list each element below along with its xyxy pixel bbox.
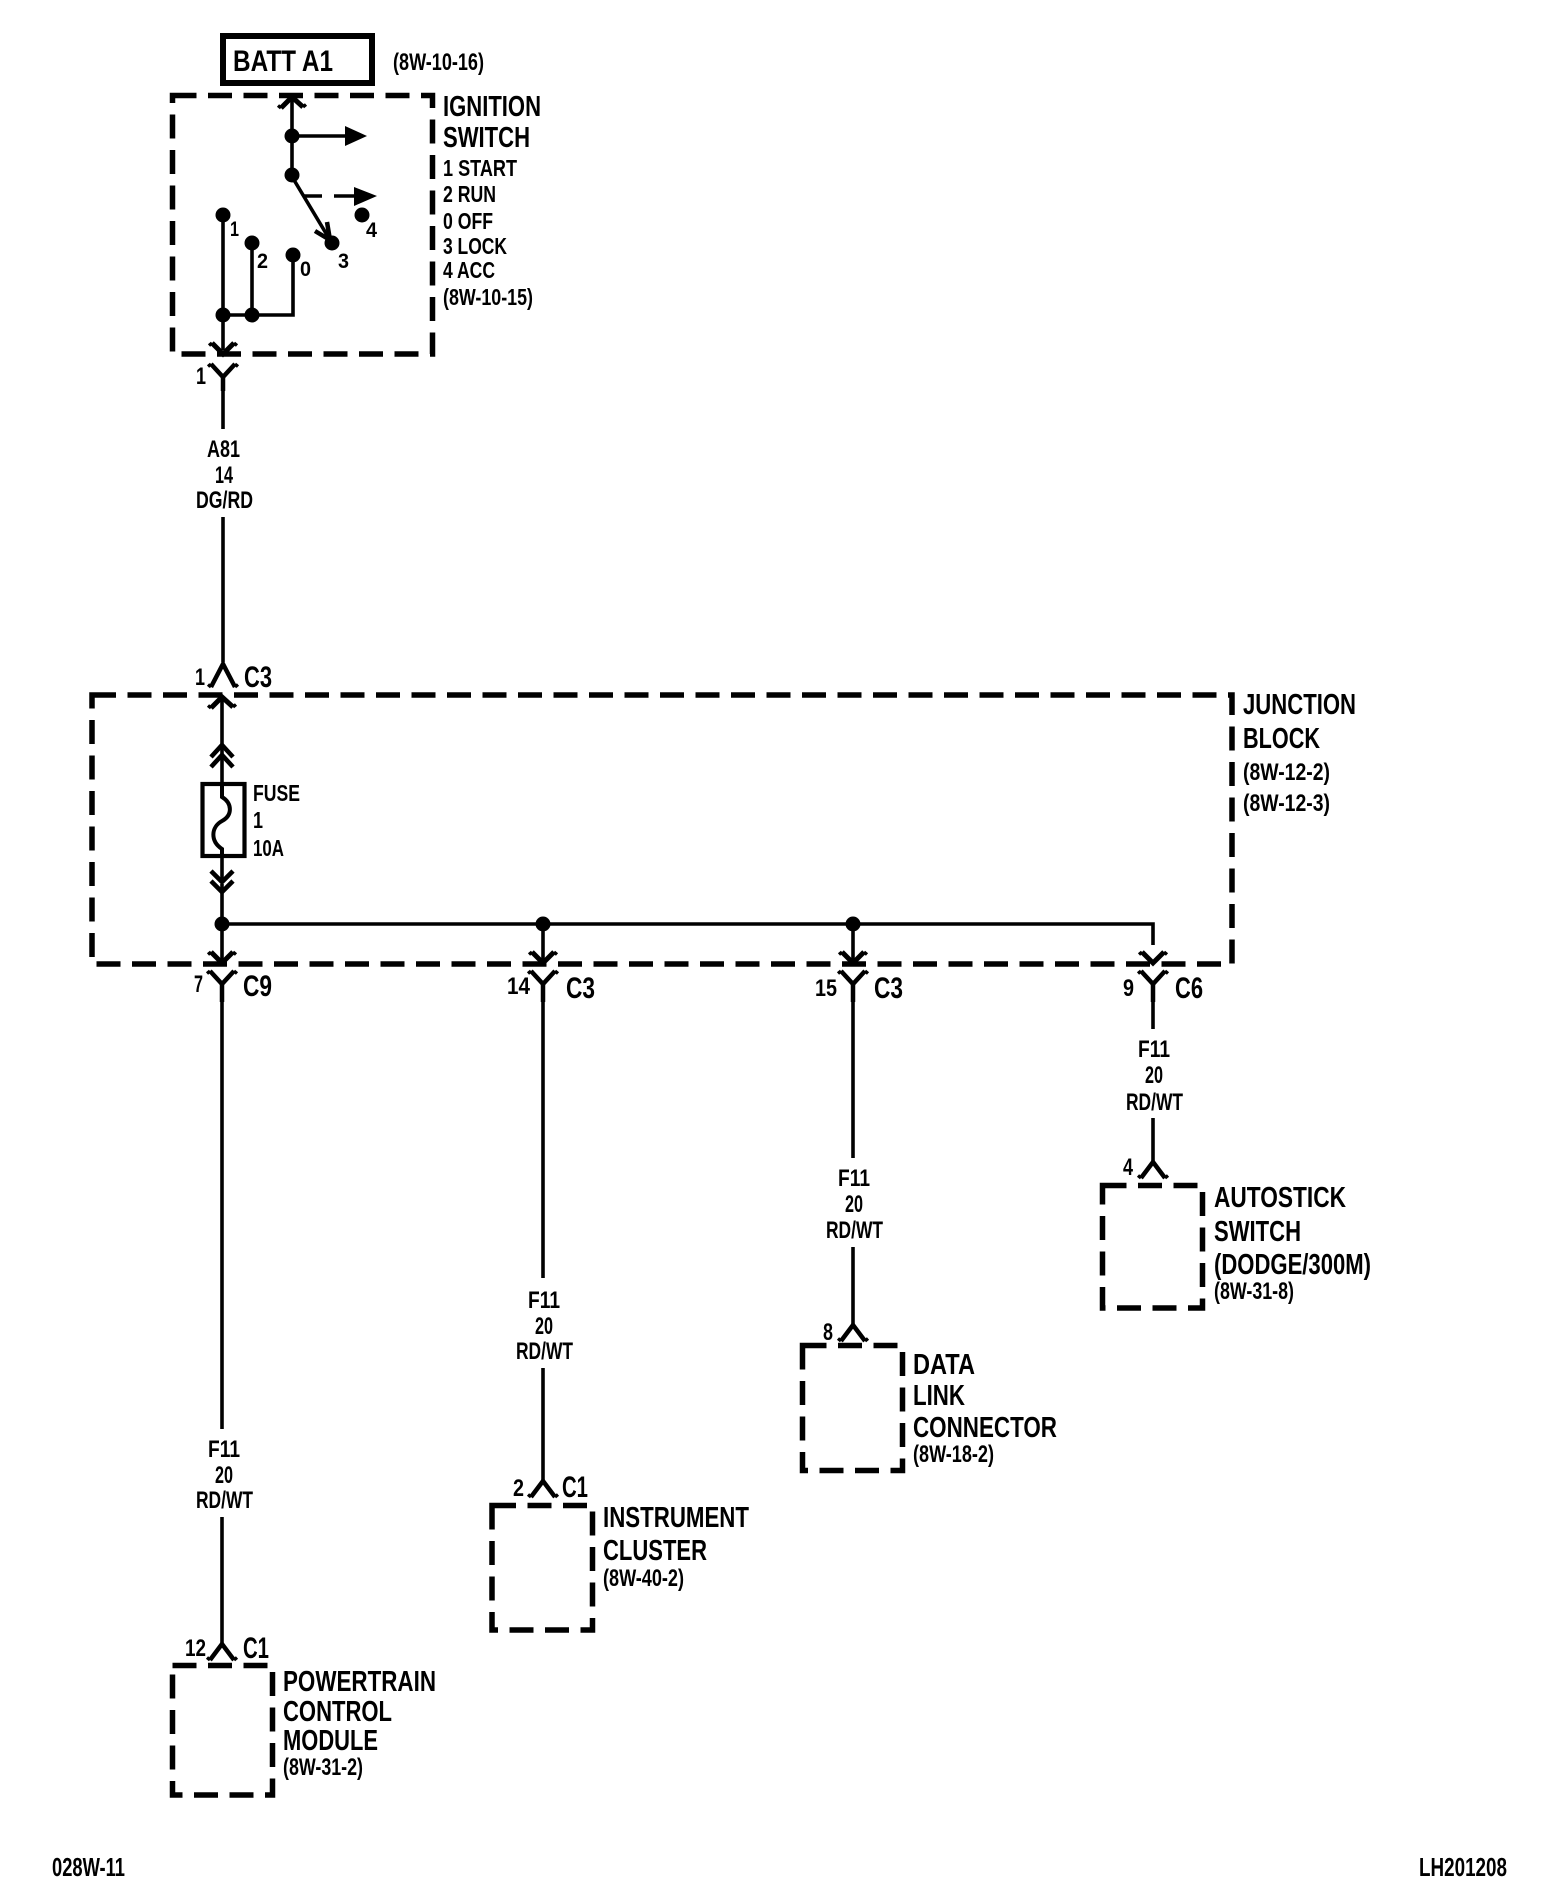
svg-text:(8W-10-15): (8W-10-15) (443, 284, 533, 310)
autostick switch box (1103, 1186, 1203, 1309)
svg-text:C3: C3 (244, 661, 272, 694)
wire terminal 2 down (250, 243, 254, 315)
svg-text:9: 9 (1123, 975, 1134, 1002)
svg-text:RD/WT: RD/WT (196, 1487, 253, 1514)
wire segment branch 4 lower (1151, 1118, 1155, 1162)
svg-text:C6: C6 (1175, 972, 1203, 1005)
svg-text:2 RUN: 2 RUN (443, 181, 496, 207)
wire segment branch 2 lower (541, 1368, 545, 1480)
branch 2 wire F11 to instrument cluster (541, 1002, 545, 1278)
svg-text:(8W-40-2): (8W-40-2) (603, 1565, 684, 1592)
terminal 0 (286, 248, 312, 282)
svg-text:LINK: LINK (913, 1380, 965, 1412)
svg-text:3 LOCK: 3 LOCK (443, 233, 507, 259)
junction block labels (1243, 689, 1356, 817)
svg-text:(8W-12-3): (8W-12-3) (1243, 790, 1330, 817)
svg-text:1: 1 (230, 218, 239, 241)
connector 14 C3 (507, 971, 595, 1005)
svg-text:LH201208: LH201208 (1419, 1852, 1507, 1882)
terminal 2 (245, 236, 269, 274)
svg-text:2: 2 (257, 250, 268, 273)
svg-text:(DODGE/300M): (DODGE/300M) (1214, 1249, 1371, 1281)
svg-text:BLOCK: BLOCK (1243, 723, 1320, 755)
terminal 4 (355, 208, 378, 243)
svg-text:1: 1 (195, 664, 205, 691)
svg-text:(8W-12-2): (8W-12-2) (1243, 759, 1330, 786)
wire terminal 1 down (221, 215, 225, 315)
powertrain control module box (173, 1666, 273, 1796)
wire label F11 20 RD/WT branch 2 (516, 1287, 573, 1365)
powertrain control module labels (283, 1666, 436, 1781)
svg-text:RD/WT: RD/WT (826, 1217, 883, 1244)
svg-text:1: 1 (253, 807, 263, 833)
svg-text:SWITCH: SWITCH (1214, 1216, 1301, 1248)
terminal 3 (325, 236, 350, 274)
svg-text:20: 20 (215, 1462, 233, 1489)
wire segment branch 1 lower (220, 1517, 224, 1643)
branch 1 exit wire and arrow (208, 924, 236, 963)
svg-text:RD/WT: RD/WT (1126, 1089, 1183, 1116)
wire A81 upper segment (221, 391, 225, 429)
svg-text:4: 4 (366, 219, 377, 242)
connector 1 C3 at junction block (195, 661, 272, 694)
dashed RUN arrow (303, 187, 377, 206)
wiper blade toward position 3 (294, 180, 330, 240)
svg-text:20: 20 (1145, 1062, 1163, 1089)
terminal 1 (216, 208, 240, 242)
svg-text:JUNCTION: JUNCTION (1243, 689, 1356, 721)
svg-text:1: 1 (196, 363, 206, 390)
svg-text:(8W-31-8): (8W-31-8) (1214, 1278, 1294, 1305)
svg-text:CONNECTOR: CONNECTOR (913, 1412, 1057, 1444)
switch common node B+ (285, 129, 300, 144)
svg-text:C3: C3 (566, 972, 595, 1005)
wire label F11 20 RD/WT branch 1 (196, 1436, 253, 1514)
svg-text:3: 3 (338, 250, 349, 273)
junction node at fuse output (215, 917, 230, 932)
data link connector box (803, 1346, 903, 1471)
wire from BATT into switch with up arrow (278, 97, 306, 176)
svg-text:(8W-31-2): (8W-31-2) (283, 1754, 363, 1781)
connector pin 1 of ignition switch (196, 363, 238, 391)
entry arrow into junction block (208, 697, 236, 745)
wire label F11 20 RD/WT branch 3 (826, 1165, 883, 1244)
svg-text:IGNITION: IGNITION (443, 91, 541, 123)
svg-text:MODULE: MODULE (283, 1725, 378, 1757)
wire A81 lower segment (221, 517, 225, 662)
junction block box (92, 695, 1232, 964)
svg-text:7: 7 (194, 971, 203, 998)
connector 12 C1 at PCM (185, 1632, 269, 1665)
svg-text:15: 15 (815, 975, 837, 1002)
ignition switch box (173, 96, 433, 355)
svg-text:F11: F11 (208, 1436, 240, 1463)
svg-text:4 ACC: 4 ACC (443, 257, 495, 283)
wire segment branch 3 lower (851, 1247, 855, 1325)
svg-text:0: 0 (300, 258, 311, 281)
svg-text:CONTROL: CONTROL (283, 1696, 392, 1728)
switch wiper pivot (285, 168, 300, 183)
connector 7 C9 (194, 970, 272, 1003)
svg-text:1 START: 1 START (443, 155, 517, 181)
fuse clip lower double chevron (211, 856, 233, 924)
svg-text:12: 12 (185, 1635, 206, 1662)
svg-text:DATA: DATA (913, 1349, 975, 1381)
svg-text:8: 8 (823, 1319, 833, 1346)
svg-text:028W-11: 028W-11 (52, 1852, 125, 1882)
svg-text:INSTRUMENT: INSTRUMENT (603, 1502, 749, 1534)
connector 2 C1 at instrument cluster (513, 1471, 588, 1504)
svg-text:14: 14 (507, 973, 531, 1000)
svg-text:F11: F11 (1138, 1036, 1170, 1063)
svg-text:POWERTRAIN: POWERTRAIN (283, 1666, 436, 1698)
svg-text:C1: C1 (562, 1471, 588, 1504)
branch 4 wire F11 to autostick switch (1151, 1002, 1155, 1029)
data link connector labels (913, 1349, 1057, 1468)
svg-text:C9: C9 (243, 970, 272, 1003)
svg-text:F11: F11 (838, 1165, 870, 1192)
connector 9 C6 (1123, 971, 1203, 1005)
svg-text:20: 20 (845, 1191, 863, 1218)
svg-text:0 OFF: 0 OFF (443, 208, 493, 234)
svg-text:FUSE: FUSE (253, 780, 300, 806)
fuse clip upper double chevron (211, 745, 233, 784)
svg-text:SWITCH: SWITCH (443, 122, 530, 154)
wire terminal 0 down and across (223, 255, 293, 315)
svg-text:(8W-18-2): (8W-18-2) (913, 1441, 994, 1468)
svg-text:(8W-10-16): (8W-10-16) (393, 49, 484, 76)
svg-text:20: 20 (535, 1313, 553, 1340)
BATT A1 feed box (223, 36, 372, 83)
junction node branch 3 (846, 917, 861, 932)
svg-text:RD/WT: RD/WT (516, 1338, 573, 1365)
svg-text:2: 2 (513, 1475, 524, 1502)
branch 3 wire F11 to data link connector (851, 1002, 855, 1158)
svg-text:C1: C1 (243, 1632, 269, 1665)
svg-text:C3: C3 (874, 972, 903, 1005)
junction dot (216, 308, 231, 323)
svg-text:10A: 10A (253, 835, 284, 861)
branch 1 wire F11 to PCM (220, 1002, 224, 1429)
branch 2 exit wire and arrow (529, 924, 557, 963)
instrument cluster labels (603, 1502, 749, 1592)
svg-text:A81: A81 (207, 436, 240, 463)
branch 4 exit arrow (1139, 952, 1167, 963)
connector 8 at data link connector (823, 1319, 868, 1346)
junction node branch 2 (536, 917, 551, 932)
svg-text:4: 4 (1123, 1154, 1133, 1181)
svg-text:14: 14 (215, 462, 233, 489)
svg-text:BATT A1: BATT A1 (233, 45, 333, 78)
svg-text:DG/RD: DG/RD (196, 487, 253, 514)
fuse F1 10A (203, 780, 301, 861)
junction dot (245, 308, 260, 323)
ignition switch labels (443, 91, 541, 310)
wire label F11 20 RD/WT branch 4 (1126, 1036, 1183, 1116)
instrument cluster box (492, 1506, 593, 1631)
wire label A81 14 DG/RD (196, 436, 253, 514)
connector 15 C3 (815, 971, 903, 1005)
switch output wire with down arrow (209, 315, 237, 354)
svg-text:CLUSTER: CLUSTER (603, 1535, 707, 1567)
branch 3 exit wire and arrow (839, 924, 867, 963)
bus wire inside junction block (222, 924, 1153, 945)
autostick switch labels (1214, 1182, 1371, 1305)
svg-text:AUTOSTICK: AUTOSTICK (1214, 1182, 1346, 1214)
arrow to START feed (292, 126, 367, 146)
svg-text:F11: F11 (528, 1287, 560, 1314)
connector 4 at autostick switch (1123, 1154, 1168, 1181)
